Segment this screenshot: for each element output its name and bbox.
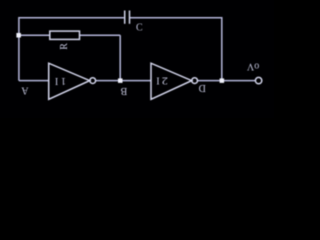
wire left vertical xyxy=(18,17,20,81)
svg-text:B: B xyxy=(120,85,127,96)
svg-text:A: A xyxy=(21,85,29,96)
svg-text:I: I xyxy=(55,75,58,86)
junction node at left (A column / R) xyxy=(16,33,21,38)
wire right vertical xyxy=(221,17,223,81)
junction node D xyxy=(220,78,225,83)
svg-text:1: 1 xyxy=(61,75,66,86)
inverter U2 bubble xyxy=(192,78,198,84)
resistor R box xyxy=(50,31,80,39)
wire inverter 2 output to terminal xyxy=(198,80,256,82)
svg-text:V: V xyxy=(246,60,254,71)
svg-text:R: R xyxy=(59,43,70,50)
wire vertical resistor to node B xyxy=(119,35,121,80)
inverter U2 triangle xyxy=(151,63,192,99)
wire resistor right stub xyxy=(80,34,121,36)
capacitor C1 plate left xyxy=(124,11,126,24)
wire node A horizontal to inverter 1 input xyxy=(19,80,49,82)
wire top horizontal left segment xyxy=(19,17,124,19)
svg-text:2: 2 xyxy=(162,75,168,86)
wire top horizontal right segment xyxy=(130,17,222,19)
wire inverter 1 output to inverter 2 input xyxy=(96,80,151,82)
inverter U1 triangle xyxy=(49,63,90,99)
svg-text:D: D xyxy=(199,82,206,93)
inverter U1 bubble xyxy=(90,78,96,84)
svg-text:o: o xyxy=(254,60,259,71)
svg-text:C: C xyxy=(136,23,143,34)
svg-text:I: I xyxy=(156,75,159,86)
wire junction to resistor left xyxy=(19,34,50,36)
capacitor C1 plate right xyxy=(129,11,131,24)
junction node B xyxy=(118,78,123,83)
output terminal circle xyxy=(255,77,261,83)
